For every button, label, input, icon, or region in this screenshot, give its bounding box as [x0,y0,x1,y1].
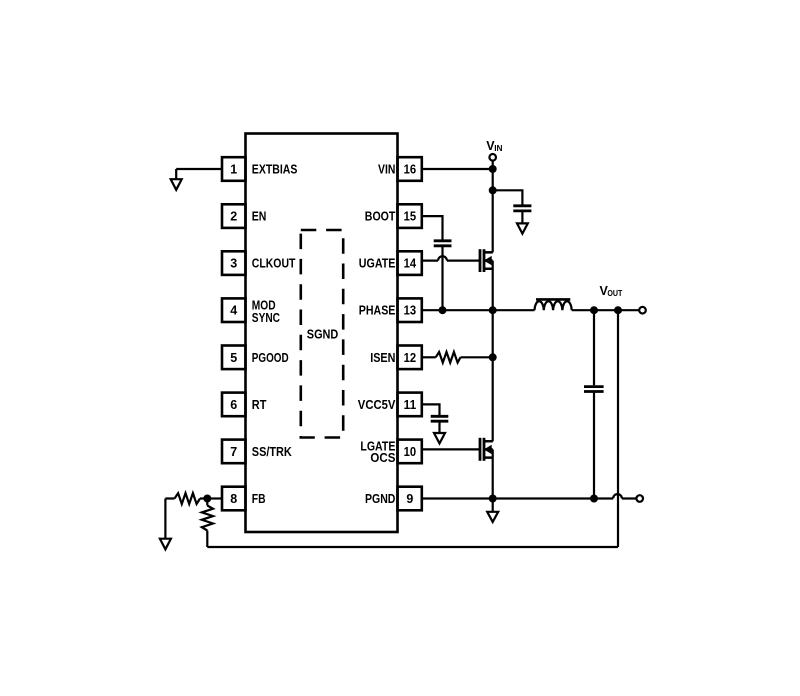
svg-text:PGOOD: PGOOD [252,351,289,365]
junction FB node [203,495,211,503]
wire Q1 source to PHASE node [492,261,494,311]
svg-text:BOOT: BOOT [365,210,396,224]
pin 13 box [398,298,422,322]
capacitor C2 bootstrap [434,241,452,246]
wire branch to input capacitor [493,190,523,204]
resistor R3 feedback upper divider [175,493,204,504]
wire VCC5V pin11 to decoupling cap [422,404,440,415]
inductor L1 [535,299,572,310]
wire feedback up to divider [206,531,208,548]
pin 3 box [222,251,246,275]
wire BOOT pin15 to bootstrap cap [422,216,443,239]
wire VCC5V cap to ground [438,422,440,433]
svg-text:13: 13 [404,304,417,318]
junction VIN/pin16 [489,165,497,173]
svg-text:3: 3 [230,257,237,271]
junction VOUT / output cap [590,306,598,314]
ground symbol at VCC5V cap [434,433,445,443]
capacitor C3 VCC5V decoupling [431,416,449,421]
capacitor C1 input cap [513,206,531,211]
wire PHASE pin13 to rail [422,309,493,311]
wire LGATE pin10 to Q2 gate [422,448,479,450]
svg-text:OUT: OUT [607,288,622,298]
pin 7 box [222,440,246,464]
wire FB junction to pin8 [207,497,222,499]
svg-text:1: 1 [230,163,237,177]
wire UGATE pin14 to Q1 gate with hop [422,256,479,260]
transistor Q2 lower MOSFET [480,438,493,461]
pin 1 box [222,157,246,181]
wire VOUT to output capacitor [593,310,595,385]
ground symbol at input cap [517,223,528,233]
wire PGND junction to ground [492,499,494,512]
svg-text:EXTBIAS: EXTBIAS [252,163,298,177]
svg-text:14: 14 [404,257,417,271]
pin 4 box [222,298,246,322]
svg-text:IN: IN [494,143,502,153]
svg-text:9: 9 [406,492,413,506]
wire rail PHASE to Q2 drain [484,310,493,441]
wire output cap to PGND [593,393,595,499]
pin 9 box [398,487,422,511]
svg-text:PHASE: PHASE [359,304,396,318]
wire VIN rail down to Q1 drain [484,190,493,252]
svg-text:UGATE: UGATE [359,257,396,271]
svg-text:5: 5 [230,351,237,365]
svg-text:RT: RT [252,398,267,412]
svg-text:8: 8 [230,492,237,506]
svg-text:6: 6 [230,398,237,412]
svg-text:OCS: OCS [370,451,395,465]
wire pin16 to VIN rail [422,168,493,170]
svg-text:15: 15 [404,210,417,224]
wire bootstrap cap to PHASE [441,247,443,310]
pin 5 box [222,346,246,370]
svg-text:EN: EN [252,210,267,224]
terminal VIN open circle [489,154,496,161]
capacitor C4 output cap [584,387,604,392]
node VIN label [486,139,502,153]
wire input cap to ground [521,212,523,223]
svg-text:16: 16 [404,163,417,177]
pin 11 box [398,393,422,417]
junction VIN/input-cap branch [489,186,497,194]
svg-text:FB: FB [252,492,266,506]
junction PHASE / rail [489,306,497,314]
junction boot cap / PHASE [439,306,447,314]
svg-text:CLKOUT: CLKOUT [252,257,296,271]
op-amp U1 IC body outline [246,134,398,533]
wire pin1 to ground [176,169,222,179]
svg-text:4: 4 [230,304,237,318]
resistor R1 ISEN sense [436,352,461,363]
wire feedback from VOUT down and across bottom [207,310,618,547]
terminal PGND open circle [636,495,643,502]
pin 10 box [398,440,422,464]
wire divider to FB junction [206,499,208,506]
junction PGND / output cap [590,495,598,503]
junction PGND / rail [489,495,497,503]
svg-text:2: 2 [230,210,237,224]
pin 14 box [398,251,422,275]
wire ISEN resistor to rail [461,356,493,358]
svg-text:11: 11 [404,398,417,412]
pin 15 box [398,204,422,228]
junction ISEN / rail [489,353,497,361]
terminal VOUT open circle [639,307,646,314]
node VOUT label [600,284,623,298]
ground symbol at FB divider [160,539,171,550]
svg-text:PGND: PGND [365,492,395,506]
wire ISEN pin12 to resistor [422,356,436,358]
transistor Q1 upper MOSFET [480,249,493,272]
svg-text:SGND: SGND [307,327,339,341]
wire PGND pin9 to terminal with hop [422,494,637,498]
wire VIN terminal to rail [492,161,494,191]
svg-text:12: 12 [404,351,417,365]
wire R3 to ground [165,499,174,539]
svg-text:VCC5V: VCC5V [358,398,396,412]
wire inductor to VOUT terminal [572,309,640,311]
pin 2 box [222,204,246,228]
pin 6 box [222,393,246,417]
svg-text:10: 10 [404,445,417,459]
ground symbol at pin 1 [171,179,182,190]
svg-text:7: 7 [230,445,237,459]
svg-text:VIN: VIN [378,163,395,177]
pin 12 box [398,346,422,370]
svg-text:SS/TRK: SS/TRK [252,445,292,459]
pin 8 box [222,487,246,511]
junction VOUT / feedback [614,306,622,314]
ground symbol at PGND [487,512,498,522]
node SGND dashed internal box [301,230,343,438]
wire PHASE to inductor [493,309,535,311]
pin 16 box [398,157,422,181]
resistor R2 feedback lower divider [202,506,213,531]
wire Q2 source to PGND [492,449,494,498]
svg-text:SYNC: SYNC [252,311,280,325]
svg-text:ISEN: ISEN [370,351,395,365]
